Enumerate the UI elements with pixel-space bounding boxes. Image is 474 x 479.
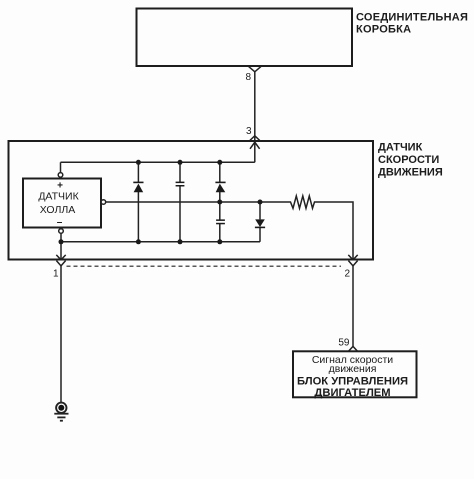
svg-text:1: 1 (53, 269, 59, 280)
hall pin circle top (58, 173, 63, 178)
diode D3 wires (259, 202, 261, 219)
svg-text:2: 2 (344, 269, 350, 280)
pin 59 notch (349, 346, 358, 351)
svg-text:3: 3 (246, 126, 252, 137)
resistor R1 (289, 196, 317, 208)
filled parts (59, 160, 266, 245)
svg-text:БЛОК УПРАВЛЕНИЯ: БЛОК УПРАВЛЕНИЯ (297, 376, 408, 388)
svg-text:СКОРОСТИ: СКОРОСТИ (378, 154, 439, 166)
wire bus to pin1 (60, 242, 62, 260)
svg-text:ДАТЧИК: ДАТЧИК (38, 191, 79, 203)
wire resistor to corner (316, 202, 353, 260)
capacitor C2 plates (216, 219, 225, 221)
hall sensor box (23, 179, 101, 228)
capacitor C1 wires (179, 162, 181, 182)
pin 1 arrow (56, 255, 65, 260)
svg-text:ДАТЧИК: ДАТЧИК (378, 142, 423, 154)
junction dots (136, 160, 141, 165)
wire pin3 into box (254, 142, 256, 162)
diode D2 (216, 184, 226, 193)
wire hall bottom to bus (60, 233, 62, 242)
svg-text:ДВИЖЕНИЯ: ДВИЖЕНИЯ (378, 167, 443, 179)
wire pin1 to ground (60, 266, 62, 403)
diode D1 (134, 184, 144, 193)
diode D3 (255, 219, 265, 227)
capacitor C1 plates (176, 182, 185, 184)
svg-text:8: 8 (245, 72, 251, 83)
svg-text:59: 59 (338, 338, 350, 349)
ECU box (293, 351, 417, 397)
diode D2 wires (219, 162, 221, 182)
svg-text:–: – (57, 217, 63, 228)
svg-text:КОРОБКА: КОРОБКА (356, 24, 411, 36)
junction box (137, 9, 353, 67)
speed sensor box (9, 141, 374, 260)
pin 3 connector (249, 136, 260, 141)
wire pin8 to pin3 (254, 72, 256, 141)
top bus (61, 161, 255, 163)
hall pin circle bottom (59, 229, 64, 234)
diode D1 wires (137, 162, 139, 182)
wire pin2 to ECU (352, 266, 354, 346)
pin 2 arrow (348, 255, 357, 260)
connector dashed line (67, 265, 342, 267)
svg-text:ДВИГАТЕЛЕМ: ДВИГАТЕЛЕМ (314, 387, 390, 399)
pin 8 notch (249, 67, 261, 72)
wire hall top to bus (60, 162, 62, 172)
svg-text:движения: движения (329, 363, 377, 375)
svg-text:СОЕДИНИТЕЛЬНАЯ: СОЕДИНИТЕЛЬНАЯ (356, 12, 468, 24)
capacitor C2 wires (219, 202, 221, 220)
bottom bus (61, 241, 260, 243)
middle bus (106, 201, 289, 203)
svg-text:ХОЛЛА: ХОЛЛА (40, 204, 76, 216)
ground symbol (56, 403, 66, 413)
hall pin circle right (101, 200, 106, 205)
